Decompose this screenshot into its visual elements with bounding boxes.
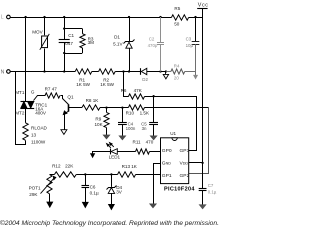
svg-text:D1: D1	[114, 34, 120, 39]
wire Q1 base	[69, 107, 82, 109]
terminal L	[1, 15, 10, 21]
svg-text:G: G	[31, 90, 35, 95]
svg-text:U1: U1	[170, 131, 176, 136]
ground C5	[150, 136, 156, 140]
wire node to R6	[124, 72, 129, 97]
svg-text:10K: 10K	[95, 122, 104, 127]
svg-text:C3: C3	[186, 36, 192, 41]
svg-text:C2: C2	[149, 37, 155, 42]
svg-text:5.1V: 5.1V	[113, 42, 123, 47]
wire POT1 gnd	[49, 194, 51, 202]
svg-text:N: N	[1, 70, 5, 76]
svg-text:20: 20	[174, 75, 179, 80]
svg-text:MT1: MT1	[15, 90, 25, 95]
label MT1	[15, 90, 25, 95]
svg-text:100n: 100n	[126, 126, 136, 131]
svg-text:R5: R5	[174, 6, 180, 11]
wire R12 to R13	[76, 173, 117, 175]
svg-text:3V: 3V	[116, 190, 123, 195]
wire R10 to GP2	[145, 108, 209, 174]
ground POT1	[47, 202, 53, 207]
zener D1	[113, 34, 134, 48]
wire R2 to D2	[115, 70, 141, 72]
svg-text:400V: 400V	[35, 110, 47, 115]
svg-text:.047: .047	[64, 41, 73, 46]
resistor R2	[99, 69, 116, 87]
label MT2	[15, 110, 25, 115]
resistor R6	[121, 88, 145, 99]
node L-C1	[63, 16, 65, 18]
node L-triac	[24, 16, 26, 18]
ground C4	[119, 136, 125, 140]
resistor RLOAD	[23, 123, 48, 145]
svg-text:R7 47: R7 47	[45, 87, 58, 92]
svg-text:29K: 29K	[29, 192, 38, 197]
power Vcc	[197, 3, 208, 163]
node C1-R3 top	[63, 27, 82, 33]
wire R5 to Vcc	[189, 16, 203, 18]
wire D1 bottom	[129, 48, 131, 71]
svg-text:3M: 3M	[88, 40, 95, 45]
wire MT2 to RLOAD	[25, 109, 27, 123]
svg-text:Vcc: Vcc	[198, 3, 209, 9]
wire L rail	[10, 17, 171, 19]
svg-text:R12: R12	[52, 164, 61, 169]
capacitor C4	[118, 108, 136, 136]
ground D4	[109, 204, 115, 209]
svg-text:©2004 Microchip Technology Inc: ©2004 Microchip Technology Incorporated.…	[0, 219, 219, 227]
label G	[31, 90, 35, 95]
svg-text:GP2: GP2	[180, 173, 190, 179]
LED LED1	[107, 143, 121, 160]
svg-text:Q1: Q1	[67, 95, 74, 100]
svg-text:1K 5W: 1K 5W	[100, 82, 114, 87]
transistor Q1	[63, 95, 74, 115]
svg-text:RLOAD: RLOAD	[31, 126, 48, 131]
wire D1 top	[129, 17, 131, 41]
wire RLOAD to N	[16, 72, 26, 145]
svg-text:50: 50	[174, 21, 180, 26]
svg-text:POT1: POT1	[29, 185, 41, 190]
resistor R9	[95, 108, 110, 135]
wire R7 to Q1	[61, 96, 69, 105]
resistor R4	[166, 63, 195, 80]
wire MOV top	[44, 17, 46, 35]
wire GND pin	[154, 164, 161, 204]
capacitor C3	[186, 17, 200, 75]
ground IC	[150, 204, 156, 208]
svg-text:10µ: 10µ	[186, 43, 194, 48]
varistor MOV	[32, 29, 49, 49]
resistor R8	[82, 98, 100, 110]
resistor R11	[133, 139, 154, 154]
svg-text:GP3: GP3	[180, 148, 190, 154]
ground R9	[103, 135, 109, 139]
svg-text:D2: D2	[142, 77, 148, 82]
svg-text:0.1µ: 0.1µ	[208, 189, 217, 194]
capacitor C5	[141, 96, 158, 136]
svg-text:22K: 22K	[65, 164, 74, 169]
wire Vcc down to C7	[202, 163, 204, 188]
wire MOV bottom	[43, 49, 45, 73]
wire Q1 emitter	[64, 114, 66, 130]
wire R13 to GP1	[136, 174, 161, 176]
svg-text:MT2: MT2	[15, 110, 25, 115]
svg-text:GP0: GP0	[162, 148, 172, 154]
svg-text:13: 13	[31, 132, 37, 137]
label PIC10F204	[164, 187, 195, 193]
svg-text:470p: 470p	[148, 43, 158, 48]
wire R1-R2	[92, 71, 99, 73]
svg-text:R10: R10	[126, 111, 135, 116]
node L-C2	[159, 16, 161, 18]
svg-text:L: L	[1, 15, 4, 21]
svg-text:3n: 3n	[142, 126, 147, 131]
wire R6 to GP3	[145, 95, 197, 150]
wire R8-R10	[100, 106, 128, 108]
wire L to triac MT1	[25, 17, 27, 101]
potentiometer POT1	[29, 174, 56, 197]
svg-text:MOV: MOV	[32, 29, 43, 34]
pin GP1	[162, 173, 172, 179]
pin GP3	[180, 148, 190, 154]
ground Q1	[61, 130, 67, 135]
svg-text:R6: R6	[121, 88, 127, 93]
wire D2 right	[147, 70, 167, 72]
wire LED to R11	[117, 151, 135, 153]
ground C7	[199, 205, 205, 209]
svg-text:1.5K: 1.5K	[140, 111, 150, 116]
pin VDD	[180, 161, 189, 167]
wire C1 top	[64, 17, 66, 40]
svg-text:R9: R9	[95, 117, 101, 122]
wire C1 bottom	[63, 42, 65, 72]
svg-text:R11: R11	[133, 139, 142, 144]
svg-text:1K 5W: 1K 5W	[76, 82, 90, 87]
resistor R7	[45, 87, 60, 98]
pin GP0	[162, 148, 172, 154]
terminal N	[1, 70, 11, 76]
pin GND	[162, 161, 171, 167]
node L-D1	[128, 16, 130, 18]
ground arrow node	[163, 72, 168, 79]
capacitor C7	[199, 183, 217, 205]
svg-text:47K: 47K	[134, 88, 143, 93]
svg-text:0.1µ: 0.1µ	[90, 191, 99, 196]
resistor R10	[126, 105, 150, 116]
triac TRC1	[21, 101, 48, 115]
diode D2	[141, 68, 149, 82]
svg-text:C1: C1	[68, 33, 74, 38]
ground C6	[82, 202, 88, 207]
svg-text:R13: R13	[122, 164, 131, 169]
caption	[0, 219, 219, 227]
zener D4	[107, 174, 123, 204]
capacitor C6	[82, 174, 99, 202]
pin GP2	[180, 173, 190, 179]
node C1-R3 bottom	[63, 48, 82, 54]
svg-text:PIC10F204: PIC10F204	[164, 187, 195, 193]
capacitor C1	[59, 33, 75, 46]
ground arrow C3	[194, 75, 198, 78]
svg-text:470: 470	[146, 139, 154, 144]
wire N rail left	[10, 71, 75, 73]
resistor R5	[171, 6, 188, 27]
resistor R3	[80, 34, 94, 48]
wire gate	[34, 96, 46, 101]
node L-MOV	[43, 16, 45, 18]
IC U1 box	[161, 131, 189, 184]
wire R11 to GP0	[150, 151, 161, 153]
wire VDD	[189, 162, 204, 164]
svg-text:LED1: LED1	[109, 155, 121, 160]
resistor R13	[118, 164, 138, 177]
ground arrow LED	[91, 152, 111, 158]
resistor R12	[50, 164, 76, 178]
svg-text:R8 1K: R8 1K	[86, 98, 100, 103]
svg-text:C7: C7	[208, 183, 214, 188]
svg-text:1K: 1K	[131, 164, 138, 169]
svg-text:1100W: 1100W	[31, 139, 46, 144]
svg-text:R4: R4	[174, 63, 180, 68]
capacitor C2	[148, 17, 164, 72]
svg-text:GP1: GP1	[162, 173, 172, 179]
resistor R1	[75, 69, 92, 87]
svg-text:C6: C6	[90, 185, 96, 190]
